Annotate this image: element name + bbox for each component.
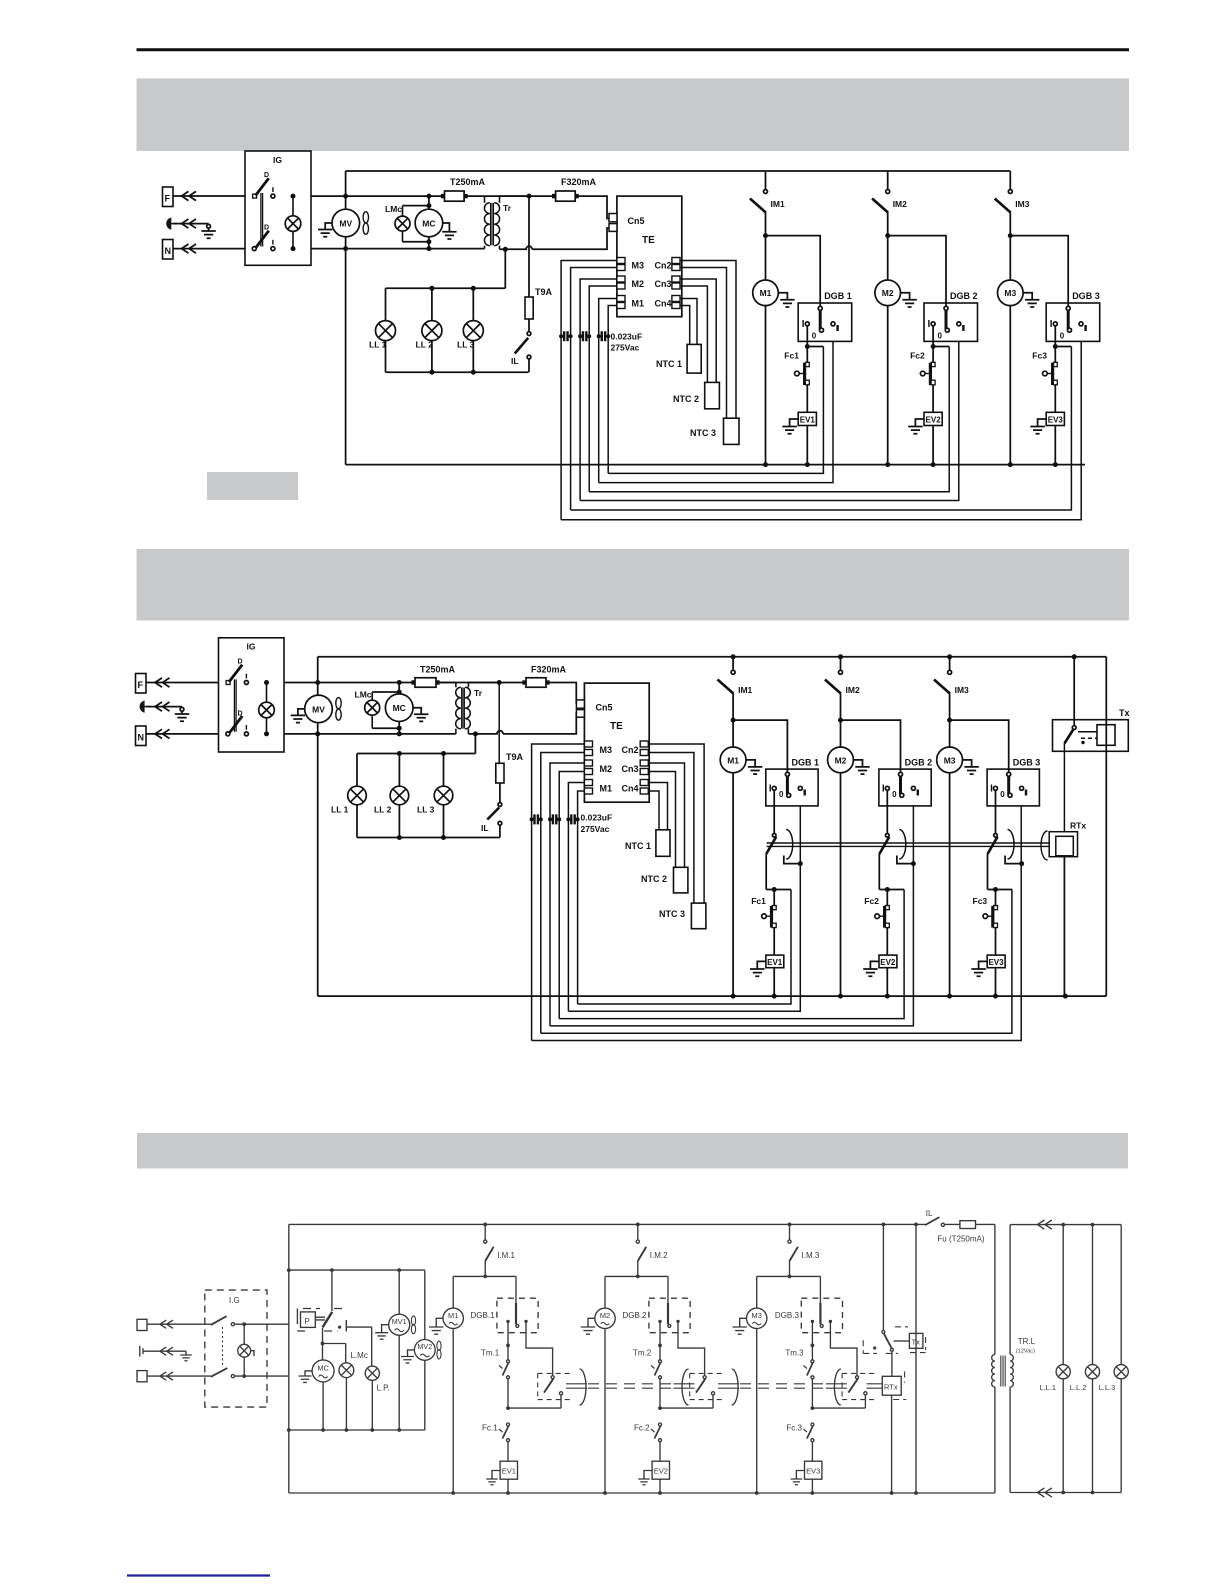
solenoid valve EV3 (diagram 1) xyxy=(1046,412,1064,425)
main switch I.G dashed box (diagram 3) xyxy=(205,1290,267,1407)
IG switch link bar (d2) xyxy=(234,679,236,731)
main switch IG box (diagram 1) xyxy=(245,151,311,265)
switch IM1 (diagram 2) xyxy=(718,657,753,720)
svg-text:M1: M1 xyxy=(727,755,739,765)
svg-text:Cn3: Cn3 xyxy=(622,764,639,774)
svg-text:Fc3: Fc3 xyxy=(1032,351,1047,361)
junction dot MV1 bus A xyxy=(397,1268,401,1272)
interior lamp LL 2 (diagram 2) xyxy=(374,754,409,838)
switch IM2 (diagram 1) xyxy=(872,171,907,236)
svg-text:NTC 3: NTC 3 xyxy=(659,909,685,919)
junction dot lamp feed (d2) xyxy=(473,731,478,736)
earth ground (d3) xyxy=(180,1351,192,1361)
junction dot below I.M.1 xyxy=(483,1275,487,1279)
wire F terminal to IG (d2) xyxy=(146,682,219,684)
junction dot N rail at MC column xyxy=(426,246,431,251)
ground M2 xyxy=(901,293,917,307)
junction dot MC/L.Mc node xyxy=(321,1342,325,1346)
svg-text:NTC 1: NTC 1 xyxy=(656,359,682,369)
ground M1 xyxy=(778,293,794,307)
svg-text:MV: MV xyxy=(339,219,352,229)
fuse T9A (diagram 2) xyxy=(496,683,524,784)
junction dot below IM2 xyxy=(885,233,890,238)
svg-text:IM2: IM2 xyxy=(893,199,907,209)
wire LMc-MC link top xyxy=(403,196,429,209)
wires TE M-pins to suppressors (d2) xyxy=(532,744,585,1041)
svg-text:Cn4: Cn4 xyxy=(655,299,672,309)
ground EV3 xyxy=(1030,419,1046,434)
svg-text:275Vac: 275Vac xyxy=(581,824,610,834)
fan motor MV2 (diagram 3) xyxy=(414,1270,441,1430)
transmitter Tx box (diagram 3) xyxy=(894,1333,923,1348)
wire RTx to bottom rail (d2) xyxy=(1063,857,1065,996)
svg-text:IM3: IM3 xyxy=(1015,199,1029,209)
lamp section top bus (d3) xyxy=(1010,1224,1121,1226)
capacitor suppressor 2 xyxy=(580,335,589,337)
nested return wires (diagram 1) xyxy=(561,341,1081,519)
svg-text:Cn5: Cn5 xyxy=(596,703,613,713)
switch IM3 (diagram 2) xyxy=(934,657,969,720)
wire DGB 1 contact I down xyxy=(806,326,808,347)
junction dots bottom rail col 3 (d2) xyxy=(947,994,952,999)
svg-text:Fu (T250mA): Fu (T250mA) xyxy=(937,1235,984,1244)
svg-text:M3: M3 xyxy=(1004,288,1016,298)
changeover dashed frame col 1 (d3) xyxy=(538,1373,570,1399)
svg-text:L.P.: L.P. xyxy=(377,1384,390,1393)
terminal F (diagram 1) xyxy=(163,187,174,207)
wire IM3 branch to DGB 3 xyxy=(1010,236,1068,309)
wire LMc-MC link bottom xyxy=(403,237,429,249)
footer rule xyxy=(127,1574,270,1576)
connector Cn5 pins xyxy=(609,214,645,232)
wire DGB 2 contact I to thermostat (d2) xyxy=(886,790,888,833)
svg-text:Fc1: Fc1 xyxy=(784,351,799,361)
thermostat Tm.1 (diagram 3) xyxy=(481,1349,510,1409)
junction dot N rail at MV column xyxy=(343,246,348,251)
connector arrows N line (d2) xyxy=(155,729,170,738)
wire M1 to bottom rail xyxy=(765,306,767,465)
junction dot below IM1 (d2) xyxy=(731,718,736,723)
junction dots bottom rail col 2 xyxy=(885,462,890,467)
wire DGB 1 contact I to thermostat (d2) xyxy=(773,790,775,833)
svg-text:D: D xyxy=(238,659,243,666)
switch IM2 (diagram 2) xyxy=(825,657,860,720)
ground MV xyxy=(318,223,332,237)
top bus wire (diagram 1) xyxy=(346,170,1011,172)
connector arrows N line xyxy=(182,244,197,253)
limit switch Fc.1 (diagram 3) xyxy=(482,1423,510,1461)
svg-text:NTC 2: NTC 2 xyxy=(641,874,667,884)
sensor NTC 3 xyxy=(690,418,739,444)
svg-text:Cn5: Cn5 xyxy=(628,216,645,226)
svg-text:N: N xyxy=(138,733,145,743)
junction dots IG lamp (d2) xyxy=(264,680,269,685)
interior lamp LL 3 (diagram 1) xyxy=(457,288,483,372)
svg-text:DGB 2: DGB 2 xyxy=(950,291,978,301)
svg-text:I.M.1: I.M.1 xyxy=(497,1251,515,1260)
svg-text:M2: M2 xyxy=(632,279,645,289)
svg-text:F320mA: F320mA xyxy=(561,177,597,187)
junction dots IG lamp xyxy=(291,194,296,199)
junction dot I.M.2 top frame xyxy=(636,1223,640,1227)
wire F320 fuse to TE Cn5 upper xyxy=(575,196,609,218)
junction dot Fc1 (d2) xyxy=(772,887,777,892)
receiver RTx box (diagram 3) xyxy=(882,1376,901,1395)
right vertical bus to bottom rail (d2) xyxy=(1105,657,1107,996)
svg-text:F320mA: F320mA xyxy=(531,665,567,675)
thermostat Tm1 (diagram 2) xyxy=(766,830,793,890)
motor M1 (diagram 3) xyxy=(443,1308,463,1328)
svg-text:EV2: EV2 xyxy=(654,1467,668,1476)
svg-text:0.023uF: 0.023uF xyxy=(611,332,643,342)
junction dots lamp bottom bus xyxy=(1061,1491,1065,1495)
limit switch Fc3 (diagram 2) xyxy=(973,890,998,956)
svg-text:DGB 2: DGB 2 xyxy=(905,757,933,767)
ground M1 (d2) xyxy=(746,760,762,774)
pins Cn4 xyxy=(655,296,681,309)
svg-text:Fc1: Fc1 xyxy=(751,896,766,906)
wire F terminal to IG xyxy=(173,195,245,197)
wire DGB.1 contact I down (d3) xyxy=(507,1321,509,1360)
svg-text:T250mA: T250mA xyxy=(420,665,456,675)
capillary curl col3 left (d3) xyxy=(834,1369,841,1405)
svg-text:LMc: LMc xyxy=(355,690,372,700)
wire N terminal (d3) xyxy=(147,1375,211,1377)
changeover switch col 2 (d3) xyxy=(660,1321,715,1408)
wire DGB 3 contact I to thermostat (d2) xyxy=(995,790,997,833)
IG switch pole F (d2) xyxy=(226,659,248,685)
connector Cn5 pins (d2) xyxy=(576,700,612,717)
svg-text:IL: IL xyxy=(481,823,489,833)
wire N terminal to IG (d2) xyxy=(146,733,219,735)
I.G switch pole N (d3) xyxy=(211,1368,289,1378)
label capacitor value (d2) xyxy=(581,813,613,835)
svg-text:LL 2: LL 2 xyxy=(416,340,434,350)
wire branch to DGB.1 (d3) xyxy=(485,1276,516,1303)
I.G switch pole F (d3) xyxy=(211,1316,289,1326)
bottom rail (diagram 1) xyxy=(346,464,1085,466)
svg-text:0: 0 xyxy=(1060,332,1065,341)
wire lamp bottom bus (diagram 2) xyxy=(357,837,500,839)
pins M1 xyxy=(617,296,644,309)
capillary curl col2 right (d3) xyxy=(732,1369,739,1405)
svg-text:Cn2: Cn2 xyxy=(655,261,672,271)
svg-text:MC: MC xyxy=(317,1364,329,1373)
wire node to L.Mc (d3) xyxy=(323,1344,346,1364)
wire fuse to junction xyxy=(464,195,529,197)
solenoid valve EV2 (diagram 1) xyxy=(924,412,942,425)
left vertical bus wire (d2) xyxy=(317,657,319,996)
wire M2 to bottom frame (d3) xyxy=(604,1329,606,1494)
lamp section bottom bus (d3) xyxy=(1010,1492,1121,1494)
IG switch pole F xyxy=(253,172,275,198)
svg-text:Fc3: Fc3 xyxy=(973,896,988,906)
junction dot changeover link (d3) xyxy=(506,1406,510,1410)
compressor motor MC (diagram 2) xyxy=(385,694,413,722)
ground MC (d3) xyxy=(299,1371,313,1383)
thermostat Tm3 (diagram 2) xyxy=(988,830,1015,890)
svg-text:M3: M3 xyxy=(752,1311,762,1320)
svg-text:NTC 2: NTC 2 xyxy=(673,394,699,404)
terminal N (diagram 2) xyxy=(136,726,147,746)
svg-text:Cn2: Cn2 xyxy=(622,745,639,755)
pins Cn4 (d2) xyxy=(622,780,649,795)
wire secondary to F320 fuse (d2) xyxy=(499,682,526,684)
wire EV3 to bottom rail (d2) xyxy=(995,968,997,996)
solenoid valve EV1 (diagram 1) xyxy=(798,412,816,425)
solenoid valve EV2 (diagram 3) xyxy=(652,1461,669,1479)
fuse T250mA (diagram 2) xyxy=(411,665,455,688)
damper box DGB 2 xyxy=(924,291,978,341)
solenoid valve EV3 (diagram 2) xyxy=(987,955,1005,968)
lamp L.L.3 (diagram 3) xyxy=(1099,1225,1129,1493)
svg-text:L.L.3: L.L.3 xyxy=(1099,1383,1116,1392)
junction dot Fc3 (d2) xyxy=(993,887,998,892)
link wires into RTx (d3) xyxy=(867,1384,883,1388)
wire F rail IG to transformer xyxy=(311,195,445,197)
wire EV2 to bottom rail xyxy=(932,426,934,465)
svg-text:275Vac: 275Vac xyxy=(611,343,640,353)
svg-text:IM1: IM1 xyxy=(738,685,752,695)
changeover dashed frame col 2 (d3) xyxy=(690,1373,722,1399)
Tx dashed enclosure (d3) xyxy=(863,1327,925,1354)
fuse Fu T250mA (diagram 3) xyxy=(937,1221,984,1244)
damper box DGB 3 (d2) xyxy=(987,757,1040,805)
junction dot Fc2 branch xyxy=(931,344,936,349)
svg-text:Fc2: Fc2 xyxy=(910,351,925,361)
ground MC (d2) xyxy=(413,708,428,722)
wire M3 to bottom frame (d3) xyxy=(756,1329,758,1494)
ground M2 (d3) xyxy=(581,1318,595,1334)
svg-text:EV1: EV1 xyxy=(800,415,816,424)
P aux contact to L.P. (d3) xyxy=(338,1320,372,1366)
fan motor MV1 (diagram 3) xyxy=(389,1270,416,1430)
junction dots F rail (d2) xyxy=(315,680,320,685)
junction dots N rail (d2) xyxy=(315,731,320,736)
wire secondary top rail xyxy=(500,195,530,197)
svg-text:Fc.2: Fc.2 xyxy=(634,1424,650,1433)
ground M3 (d3) xyxy=(733,1318,747,1334)
ground M3 (d2) xyxy=(963,760,979,774)
bottom rail (diagram 2) xyxy=(318,995,1107,997)
junction dot aux on contact II wire (d2) xyxy=(1019,861,1024,866)
junction dot Fc3 branch xyxy=(1053,344,1058,349)
wire M3 to bottom rail (d2) xyxy=(949,773,951,996)
electronic board TE (diagram 1) xyxy=(617,196,682,317)
junction dots buses (d3) xyxy=(321,1428,325,1432)
pins Cn2 xyxy=(655,258,681,271)
junction dot secondary top xyxy=(527,194,532,199)
damper box DGB 1 xyxy=(798,291,852,341)
svg-text:M3: M3 xyxy=(600,745,613,755)
IG switch link bar xyxy=(261,193,263,247)
wire F terminal (d3) xyxy=(147,1323,211,1325)
wire branch to motor M3 (d3) xyxy=(757,1276,790,1308)
solenoid valve EV2 (diagram 2) xyxy=(879,955,897,968)
capillary curl col2 left (d3) xyxy=(682,1369,689,1405)
lamp L.Mc (diagram 3) xyxy=(339,1351,368,1430)
svg-text:LL 1: LL 1 xyxy=(369,340,387,350)
wire branch to motor M1 (d3) xyxy=(453,1276,485,1308)
wire N rail IG to transformer (d2) xyxy=(284,733,456,735)
svg-text:Fc2: Fc2 xyxy=(864,896,879,906)
sensor NTC 2 xyxy=(673,382,719,408)
changeover switch col 1 (d3) xyxy=(508,1321,563,1408)
junction dot secondary top (d2) xyxy=(497,680,502,685)
label capacitor value xyxy=(611,332,643,353)
svg-text:D: D xyxy=(264,172,269,179)
arrows lamp top bus (d3) xyxy=(1037,1220,1052,1229)
capacitor suppressor 3 (d2) xyxy=(568,818,577,820)
connector arrows N (d3) xyxy=(160,1372,173,1380)
limit switch Fc.2 (diagram 3) xyxy=(634,1423,662,1461)
damper box DGB 2 (d2) xyxy=(879,757,932,805)
pins M2 xyxy=(617,276,644,289)
capacitor suppressor 3 xyxy=(599,335,609,337)
pins M1 (d2) xyxy=(584,780,612,795)
svg-text:M2: M2 xyxy=(835,755,847,765)
junction dot P on bus A xyxy=(330,1268,334,1272)
svg-text:EV2: EV2 xyxy=(926,415,942,424)
damper DGB.3 dashed box (diagram 3) xyxy=(775,1298,843,1333)
svg-text:L.Mc: L.Mc xyxy=(351,1351,368,1360)
terminal earth plug (diagram 2) xyxy=(140,701,150,713)
svg-text:TE: TE xyxy=(610,721,623,732)
wire N terminal to IG xyxy=(173,248,245,250)
wire branch to nested bus (col 3) xyxy=(1055,346,1071,348)
wire lamp top bus (diagram 2) xyxy=(357,734,475,754)
wire IM3 branch to DGB 3 (d2) xyxy=(950,720,1009,775)
svg-text:0: 0 xyxy=(812,332,817,341)
compressor MC (diagram 3) xyxy=(312,1360,334,1382)
electronic board TE (diagram 2) xyxy=(584,683,649,802)
svg-text:IM2: IM2 xyxy=(846,685,860,695)
interior lamp LL 2 (diagram 1) xyxy=(416,288,442,372)
svg-text:RTx: RTx xyxy=(884,1382,898,1391)
terminal box F (diagram 3) xyxy=(137,1319,147,1330)
svg-text:T9A: T9A xyxy=(506,752,524,762)
motor M3 (diagram 3) xyxy=(747,1308,767,1328)
lamp L.P. (diagram 3) xyxy=(365,1366,390,1430)
junction dot lamp feed xyxy=(503,247,508,252)
svg-text:F: F xyxy=(165,194,171,204)
ground EV2 xyxy=(908,419,924,434)
svg-text:M2: M2 xyxy=(882,288,894,298)
limit switch Fc2 (diagram 2) xyxy=(864,890,889,956)
ground EV3 (d2) xyxy=(971,961,987,976)
sensor NTC 3 (d2) xyxy=(659,903,706,929)
svg-text:TR.L: TR.L xyxy=(1018,1337,1036,1346)
ground M1 (d3) xyxy=(429,1318,443,1334)
svg-text:LL 3: LL 3 xyxy=(417,805,435,815)
sensor NTC 2 (d2) xyxy=(641,867,688,893)
lamp L.L.1 (diagram 3) xyxy=(1039,1225,1070,1493)
terminal box N (diagram 3) xyxy=(137,1371,147,1382)
motor M2 (diagram 3) xyxy=(595,1308,615,1328)
wire LMc-MC link bottom (d2) xyxy=(372,722,399,734)
IG pilot lamp (d2) xyxy=(259,683,275,734)
fuse T250mA (diagram 1) xyxy=(441,177,486,201)
capacitor suppressor 2 (d2) xyxy=(550,818,559,820)
ground MV (d2) xyxy=(291,709,305,723)
svg-text:TE: TE xyxy=(642,235,655,246)
thermostat Tm2 (diagram 2) xyxy=(879,830,906,890)
solenoid valve EV3 (diagram 3) xyxy=(805,1461,822,1479)
svg-text:LMc: LMc xyxy=(385,204,402,214)
ground EV1 xyxy=(782,419,798,434)
inner bottom bus (d3) xyxy=(289,1429,425,1431)
nested return wires (diagram 2) xyxy=(532,806,1022,1041)
svg-text:MV: MV xyxy=(312,704,325,714)
ground MV2 (d3) xyxy=(401,1350,414,1363)
svg-text:(12Vac): (12Vac) xyxy=(1016,1349,1035,1355)
terminal N (diagram 1) xyxy=(163,240,174,260)
limit switch Fc.3 (diagram 3) xyxy=(786,1423,814,1461)
transmitter switch line (d3) xyxy=(882,1224,894,1351)
svg-text:NTC 1: NTC 1 xyxy=(625,841,651,851)
svg-text:EV3: EV3 xyxy=(1048,415,1064,424)
svg-text:M3: M3 xyxy=(944,755,956,765)
svg-text:0: 0 xyxy=(1000,790,1005,799)
motor M2 (diagram 1) xyxy=(875,236,901,306)
damper DGB.2 dashed box (diagram 3) xyxy=(623,1298,691,1333)
svg-text:I.M.3: I.M.3 xyxy=(802,1251,820,1260)
junction dot below I.M.2 xyxy=(636,1275,640,1279)
wire DGB 2 contact I down xyxy=(932,326,934,347)
interior lamp LL 1 (diagram 2) xyxy=(331,754,366,838)
ground MV1 (d3) xyxy=(375,1325,389,1339)
header rule xyxy=(137,48,1130,51)
junction dots lamp top bus xyxy=(1061,1223,1065,1227)
wire earth line xyxy=(174,223,209,225)
svg-text:MV2: MV2 xyxy=(417,1342,432,1351)
svg-text:DGB 1: DGB 1 xyxy=(824,291,852,301)
svg-text:Fc.1: Fc.1 xyxy=(482,1424,498,1433)
IG pilot lamp xyxy=(285,196,301,249)
earth ground symbol xyxy=(201,224,215,238)
terminal F (diagram 2) xyxy=(136,674,147,694)
svg-text:RTx: RTx xyxy=(1070,821,1086,831)
capacitor suppressor 1 xyxy=(561,335,571,337)
svg-text:MC: MC xyxy=(393,703,406,713)
junction dot I.M.3 top frame xyxy=(788,1223,792,1227)
damper box DGB 3 xyxy=(1046,291,1100,341)
wires TE M-pins to suppressors xyxy=(561,261,617,520)
connector arrows earth (d3) xyxy=(160,1347,173,1355)
svg-text:M2: M2 xyxy=(600,1311,610,1320)
pins Cn3 (d2) xyxy=(622,760,649,775)
junction dot aux on contact II wire (d2) xyxy=(911,861,916,866)
svg-text:EV2: EV2 xyxy=(880,958,896,967)
svg-text:Fc.3: Fc.3 xyxy=(786,1424,802,1433)
svg-text:T9A: T9A xyxy=(535,287,553,297)
top bus wire (diagram 2) xyxy=(318,656,1107,658)
svg-text:IM1: IM1 xyxy=(771,199,785,209)
svg-text:L.L.1: L.L.1 xyxy=(1039,1383,1056,1392)
transformer Tr (diagram 1) xyxy=(484,196,511,249)
thermostat aux contact link (d2) xyxy=(1005,856,1022,864)
pins Cn3 xyxy=(655,276,681,289)
motor M2 (diagram 2) xyxy=(828,720,854,773)
junction dot below IM1 xyxy=(763,233,768,238)
junction dot I.M.1 top frame xyxy=(483,1223,487,1227)
connector arrows F line xyxy=(182,191,197,200)
svg-text:N: N xyxy=(165,246,172,256)
compressor motor MC (diagram 1) xyxy=(415,209,443,237)
pins Cn2 (d2) xyxy=(622,741,649,756)
wire IM2 branch to DGB 2 (d2) xyxy=(841,720,901,775)
junction dots bottom rail col 2 (d2) xyxy=(838,994,843,999)
